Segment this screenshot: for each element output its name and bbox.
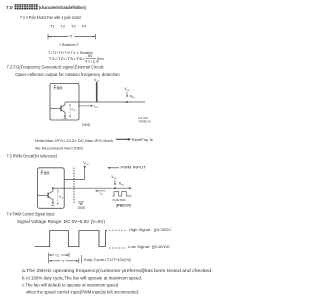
svg-text:High Signal : ≧3.3VDC.: High Signal : ≧3.3VDC. [129, 227, 173, 232]
svg-text:T4: T4 [82, 24, 86, 28]
svg-text:Open-collector output for rota: Open-collector output for rotation frequ… [15, 72, 120, 77]
svg-text:T=T1+T2+T3+T4: 1 Rotation: T=T1+T2+T3+T4: 1 Rotation [48, 50, 93, 55]
VCE dashed measure arrow [69, 105, 71, 118]
svg-text:T2: T2 [61, 24, 65, 28]
transistor Q (open collector) base wire [50, 108, 61, 110]
svg-text:CE: CE [73, 110, 76, 112]
svg-text:b.At 100% duty cycle,The fan w: b.At 100% duty cycle,The fan will operat… [22, 276, 142, 281]
arrow to node [114, 180, 116, 184]
svg-text:T: T [62, 259, 64, 263]
svg-text:T1=T2=T3=T4=: T1=T2=T3=T4= [49, 56, 86, 61]
IFG current arrow [78, 105, 92, 107]
collector [48, 188, 53, 194]
svg-text:1 Rotation=T: 1 Rotation=T [59, 42, 79, 47]
svg-text:when the speed control input(P: when the speed control input(PWM input)i… [26, 290, 139, 295]
figure 7.1: T1..T4 labels [50, 24, 86, 28]
svg-text:PWM INPUT: PWM INPUT [121, 166, 147, 170]
svg-text:a.The 25KHz operating frequenc: a.The 25KHz operating frequency(customer… [22, 268, 213, 273]
svg-text:7.3 PWM Circuit(for reference): 7.3 PWM Circuit(for reference) [7, 153, 58, 158]
node dot [114, 187, 116, 189]
svg-text:T3: T3 [71, 24, 75, 28]
svg-text:T1: T1 [55, 254, 59, 258]
svg-text:CE: CE [61, 197, 64, 199]
svg-text:FG: FG [132, 97, 135, 99]
svg-text:SPEED Fn: SPEED Fn [139, 120, 152, 124]
node dot VFG [126, 101, 128, 103]
svg-text:FG: FG [121, 184, 124, 186]
transistor bar [60, 106, 62, 112]
collector [61, 102, 65, 107]
transistor base wire [38, 194, 48, 196]
internal collector wire [53, 187, 64, 189]
arrow to node [126, 92, 128, 96]
svg-text:PULSE TRAIN: PULSE TRAIN [112, 198, 125, 202]
T dimension [49, 258, 79, 263]
svg-text:Fan: Fan [41, 171, 50, 177]
svg-text:7.0: 7.0 [6, 5, 13, 11]
svg-text:Note:Max.VFG=13.2v DC,Max.IFG=: Note:Max.VFG=13.2v DC,Max.IFG=5mA [35, 138, 113, 143]
svg-text:FG: FG [127, 90, 130, 92]
svg-text:Low Signal: ≦0.8VDC: Low Signal: ≦0.8VDC [128, 244, 170, 249]
svg-text:Sec: Sec [97, 56, 104, 61]
pwm wave trace [35, 231, 108, 247]
PWM INPUT label arrow [109, 167, 119, 169]
svg-text:(SPEED OUT): (SPEED OUT) [116, 204, 131, 208]
svg-text:Fan: Fan [54, 86, 63, 92]
Vcc rail [96, 82, 98, 102]
fan box [50, 84, 79, 121]
svg-text:T: T [70, 34, 73, 39]
svg-text:FG: FG [95, 107, 98, 109]
collector node dot [52, 187, 54, 189]
svg-text:CC: CC [97, 81, 101, 83]
svg-text:FG OUT: FG OUT [139, 116, 149, 120]
separator bar [81, 255, 83, 263]
PWM input wire [64, 187, 130, 189]
svg-text:CC: CC [86, 164, 90, 166]
dashed high level [109, 229, 127, 231]
dashed low level [109, 247, 127, 249]
svg-text:FG: FG [114, 178, 117, 180]
VCC terminal dot [84, 166, 86, 168]
svg-text:IN: IN [101, 194, 104, 196]
svg-text:Duty Cycle=T1/T*100(%): Duty Cycle=T1/T*100(%) [84, 257, 132, 262]
VCE dashed measure arrow [57, 190, 59, 204]
svg-text:7.2 FG(Frequency Generator) si: 7.2 FG(Frequency Generator) signal Exter… [7, 64, 105, 69]
svg-text:7.1 4 Pole Motor:Fan with 4 po: 7.1 4 Pole Motor:Fan with 4 pole motor [20, 15, 81, 20]
dimension arrow T [48, 34, 96, 39]
ground symbol [78, 202, 84, 205]
emitter with arrow [61, 110, 65, 117]
FG wire [65, 101, 145, 103]
svg-text:Signal Voltage Range :DC 0V~5.: Signal Voltage Range :DC 0V~5.5V (V=5V) [17, 219, 106, 224]
svg-text:60: 60 [88, 54, 92, 58]
CJK title blocks 特征和定义 [15, 4, 38, 9]
top supply wire [64, 168, 85, 180]
T1 dimension [49, 253, 69, 264]
svg-text:(characteristics&definition): (characteristics&definition) [39, 5, 86, 10]
pulse train glyph [112, 192, 131, 196]
svg-text:GND: GND [82, 123, 91, 127]
svg-text:c.The fan will default to oper: c.The fan will default to operate at max… [22, 283, 119, 288]
svg-text:GND: GND [78, 206, 86, 210]
svg-text:Rext/Frq/ Is: Rext/Frq/ Is [132, 138, 154, 142]
fan box [38, 168, 65, 209]
svg-text:T1: T1 [50, 24, 54, 28]
svg-text:We Recommend Rex=10KΩ: We Recommend Rex=10KΩ [35, 145, 83, 150]
dashed interface line [73, 168, 75, 203]
transistor bar [47, 193, 49, 198]
emitter with arrow [48, 197, 53, 204]
svg-text:7.4 PWM Control Signal Input:: 7.4 PWM Control Signal Input: [7, 211, 56, 216]
Iin current arrow [97, 190, 106, 192]
note arrow [116, 138, 128, 140]
